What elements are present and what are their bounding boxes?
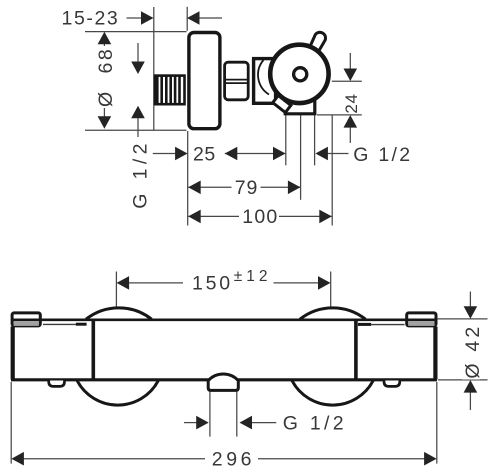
left union bottom arc	[77, 380, 159, 405]
handle hub (inner circle)	[294, 68, 307, 81]
arrow 100 right tip	[319, 210, 332, 224]
arrow dia68 down	[98, 116, 112, 129]
right cap grey band	[408, 321, 434, 326]
label 296	[208, 448, 254, 468]
label dia 42 (rotated)	[462, 321, 480, 380]
handle stem knob	[309, 32, 325, 53]
cartridge crescent	[258, 60, 269, 95]
wire: 150 right extension	[330, 272, 332, 308]
wire: 100 dim line	[188, 215, 332, 217]
wire: dia68 top extension	[85, 31, 187, 33]
left cap grey band	[14, 321, 39, 326]
wire: body centre extension	[300, 112, 302, 200]
svg-text:150: 150	[192, 273, 233, 295]
left retainer bump	[49, 381, 65, 387]
arrow 15-23 right-pointing	[141, 11, 154, 25]
wire: dia42 dim shafts	[469, 292, 471, 308]
wire: outlet extension right	[236, 392, 238, 437]
arrow G1/2 bottom left-pointing	[240, 416, 253, 430]
wire: G1/2 outlet label shaft	[327, 153, 349, 155]
right union top arc	[300, 308, 366, 319]
arrow outlet-right left-pointing	[315, 147, 328, 161]
arrow G1/2 bottom right-pointing	[196, 416, 209, 430]
wire: outlet right edge extension	[314, 113, 316, 165]
left union top arc	[86, 308, 152, 319]
arrow 296 right tip	[424, 452, 437, 466]
centre outlet nut	[208, 374, 238, 390]
arrow 296 left tip	[11, 452, 24, 466]
wire: escutcheon face extension (upper)	[186, 7, 188, 31]
label 79	[232, 176, 261, 196]
arrow 24 down	[344, 69, 358, 82]
svg-text:24: 24	[342, 93, 361, 113]
arrow dia42 up	[464, 380, 478, 393]
left union joint line	[92, 319, 96, 380]
thermostat handle (circle)	[270, 45, 328, 103]
arrow 15-23 left-pointing	[187, 11, 200, 25]
svg-text:±12: ±12	[234, 268, 272, 285]
text labels, top view	[62, 8, 413, 229]
wire: outlet left edge extension	[285, 113, 287, 165]
wire: dia42 top extension	[438, 318, 488, 320]
right wall bracket cap	[407, 313, 436, 326]
right union bottom arc	[292, 380, 374, 405]
pipe thread hatching	[157, 77, 179, 104]
bar bottom edge	[11, 378, 437, 381]
wire: dim 15-23 shafts	[127, 17, 143, 19]
svg-text:15-23: 15-23	[62, 8, 120, 30]
hex union nut	[225, 62, 249, 100]
wire: dia68 dim line	[103, 40, 105, 121]
arrowheads, top view	[98, 11, 358, 223]
svg-text:Ø 68: Ø 68	[95, 47, 117, 107]
wire: 25 dim shaft left	[153, 153, 177, 155]
left bracket outer edge	[11, 327, 15, 380]
wire: G1/2 bottom shafts	[184, 422, 197, 424]
left knob notch dash	[76, 323, 87, 326]
label dia 68 (rotated)	[96, 46, 113, 108]
right bracket outer edge	[433, 327, 437, 380]
bar body fill	[13, 321, 436, 379]
svg-text:25: 25	[193, 143, 216, 165]
svg-text:79: 79	[235, 177, 258, 199]
wire: wall extension line	[153, 7, 155, 130]
threaded inlet pipe	[155, 76, 185, 105]
arrow G1/2 pipe up	[131, 106, 145, 119]
svg-text:G 1/2: G 1/2	[353, 144, 412, 166]
left wall bracket cap	[12, 313, 40, 326]
right union joint line	[354, 319, 358, 380]
arrow G1/2 pipe down	[131, 62, 145, 75]
wire: dia68 bottom extension	[85, 129, 187, 131]
wire: 150 dim shafts	[128, 282, 183, 284]
bar top edge	[12, 318, 437, 321]
arrow 25 left-pointing	[225, 147, 238, 161]
svg-text:G 1/2: G 1/2	[283, 413, 347, 435]
arrow 24 up	[344, 115, 358, 128]
wire: 296 left extension	[10, 382, 12, 464]
arrow 79 left tip	[188, 181, 201, 195]
svg-text:Ø 42: Ø 42	[462, 324, 484, 379]
svg-text:296: 296	[212, 448, 255, 470]
wire: overall-100 extension	[331, 115, 333, 226]
wire: G1/2 pipe dim shafts	[137, 43, 139, 63]
wire: 24 dim bottom extension	[317, 114, 362, 116]
right knob notch dash	[358, 323, 371, 326]
escutcheon (wall rosette)	[189, 33, 220, 129]
arrow 150 right tip	[318, 276, 331, 290]
wire: 25/outlet tail-to-tail shaft	[225, 153, 285, 155]
right retainer bump	[384, 381, 400, 387]
wire: 24 dim shafts	[349, 53, 351, 70]
wire: dia42 bottom extension	[438, 379, 488, 381]
wire: 296 dim shafts	[24, 458, 206, 460]
arrow dia68 up	[98, 32, 112, 45]
wire: 24 dim top extension	[332, 80, 362, 82]
svg-text:100: 100	[242, 206, 278, 228]
arrow outlet-left right-pointing	[273, 147, 286, 161]
svg-text:G 1/2: G 1/2	[130, 139, 152, 209]
outlet block below handle	[285, 99, 315, 114]
wire: outlet extension left	[209, 392, 211, 437]
wire: 79 dim line	[188, 186, 300, 188]
valve body adapter	[254, 59, 276, 104]
arrow 150 left tip	[117, 276, 130, 290]
label 100	[239, 205, 279, 225]
wire: 296 right extension	[436, 382, 438, 464]
arrow 100 left tip	[188, 210, 201, 224]
wire: escutcheon face extension (lower)	[187, 131, 189, 226]
arrow dia42 down	[464, 306, 478, 319]
wire: 150 left extension	[115, 272, 117, 308]
arrow 25 right-pointing	[175, 147, 188, 161]
diagonal lever piece	[273, 96, 291, 113]
arrow 79 right tip	[288, 181, 301, 195]
dimension layer	[11, 272, 487, 464]
